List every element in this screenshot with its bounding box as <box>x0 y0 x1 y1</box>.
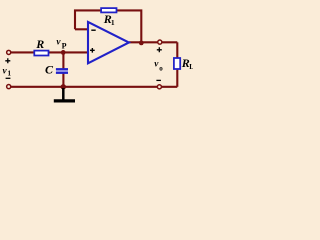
svg-text:L: L <box>189 63 193 71</box>
svg-text:C: C <box>45 63 54 77</box>
svg-text:P: P <box>62 41 67 50</box>
svg-text:1: 1 <box>111 18 115 27</box>
svg-text:1: 1 <box>7 69 11 78</box>
svg-text:R: R <box>35 37 44 51</box>
svg-text:o: o <box>159 64 163 72</box>
